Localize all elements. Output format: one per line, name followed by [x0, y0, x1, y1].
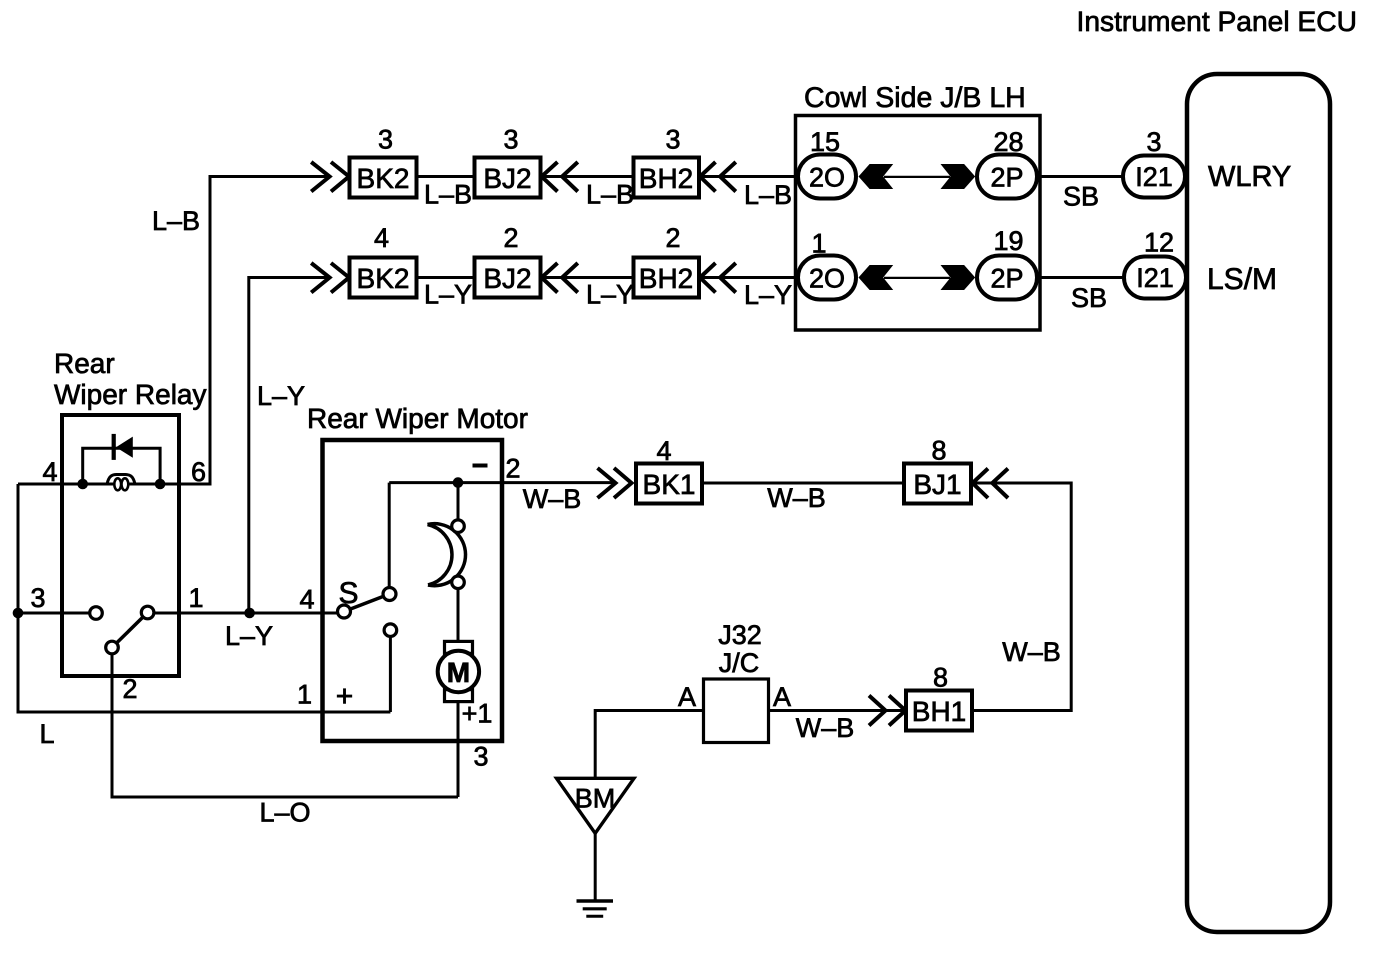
wire relay pin1 to motor pin4: [152, 612, 339, 615]
svg-text:L–Y: L–Y: [257, 381, 305, 411]
wire J32 to BH1: [769, 709, 907, 712]
label L-B: [152, 206, 200, 236]
svg-text:2O: 2O: [809, 264, 845, 294]
pin 2 label above BJ2 row2: [503, 223, 518, 253]
svg-text:2: 2: [665, 223, 680, 253]
svg-text:2O: 2O: [809, 163, 845, 193]
svg-text:BH1: BH1: [912, 696, 966, 727]
pin 12 label above I21 row2: [1144, 228, 1174, 258]
svg-text:8: 8: [933, 663, 948, 693]
wire L-Y riser to row2: [249, 278, 329, 614]
label L-Y: [257, 381, 305, 411]
svg-text:1: 1: [297, 680, 312, 710]
svg-text:I21: I21: [1136, 263, 1174, 293]
junction dot relay coil right: [155, 479, 166, 490]
svg-text:Rear Wiper Motor: Rear Wiper Motor: [307, 403, 528, 434]
pin 3 label above BK2 row1: [378, 125, 393, 155]
svg-text:LS/M: LS/M: [1207, 263, 1277, 296]
pin 2 label motor: [505, 454, 520, 484]
connector BH2 row2: [634, 258, 700, 298]
svg-text:Cowl Side J/B LH: Cowl Side J/B LH: [804, 82, 1026, 114]
connector BJ1: [904, 464, 971, 504]
svg-text:L–B: L–B: [744, 180, 792, 210]
label W-B: [796, 713, 855, 743]
label L-O: [259, 798, 310, 828]
wire BH2 to junction block row1: [699, 175, 798, 178]
terminal 2O row1: [798, 155, 856, 199]
relay switch contact left: [90, 607, 103, 620]
connector BH2 row1: [634, 158, 700, 198]
label Rear Wiper Motor: [307, 403, 528, 434]
connector BK2 row2: [350, 258, 417, 298]
junction dot motor minus: [453, 477, 464, 488]
svg-text:6: 6: [191, 457, 206, 487]
connector BH1: [906, 691, 972, 731]
svg-text:L–Y: L–Y: [586, 280, 634, 310]
arrow chevrons after BJ2 row1: [542, 162, 578, 192]
label L-B: [586, 180, 634, 210]
pin 3 label above I21 row1: [1146, 127, 1161, 157]
svg-text:Instrument Panel ECU: Instrument Panel ECU: [1077, 5, 1357, 37]
svg-text:W–B: W–B: [523, 484, 582, 514]
solid arrow left row2: [859, 265, 894, 290]
svg-text:3: 3: [473, 742, 488, 772]
svg-text:L–Y: L–Y: [225, 621, 273, 651]
motor M armature: [438, 651, 479, 692]
arrow chevrons after BH2 row1: [700, 162, 736, 192]
svg-text:BK2: BK2: [357, 163, 410, 194]
svg-text:4: 4: [299, 585, 314, 615]
cam crescent: [428, 524, 466, 586]
label W-B: [767, 483, 826, 513]
pin 4 label motor: [299, 585, 314, 615]
pin 28 label above 2P row1: [993, 127, 1023, 157]
svg-text:+1: +1: [462, 699, 493, 729]
pin 3 label above BH2 row1: [665, 125, 680, 155]
svg-text:L–Y: L–Y: [424, 280, 472, 310]
net LS/M: [1207, 263, 1277, 296]
svg-text:W–B: W–B: [767, 483, 826, 513]
svg-text:+: +: [336, 680, 354, 713]
pin 3 label above BJ2 row1: [503, 125, 518, 155]
plus label motor: [336, 680, 354, 713]
wire ground stem: [594, 833, 597, 899]
relay coil: [107, 475, 135, 491]
arrow chevrons into BK1: [598, 468, 632, 498]
svg-text:A: A: [773, 682, 791, 712]
wire left rail and L line: [18, 484, 390, 712]
pin 1 label motor: [297, 680, 312, 710]
motor switch contact lower: [384, 624, 397, 637]
pin 2 label above BH2 row2: [665, 223, 680, 253]
connector BJ2 row1: [475, 158, 541, 198]
label L-B: [744, 180, 792, 210]
svg-text:3: 3: [665, 125, 680, 155]
motor M brushes: [445, 641, 473, 701]
wire relay pin4-pin6 line: [18, 483, 212, 486]
label L-Y at node: [225, 621, 273, 651]
pin 4 label above BK2 row2: [374, 223, 389, 253]
solid arrow right row2: [941, 265, 976, 290]
terminal 2P row2: [977, 256, 1037, 300]
label L-Y: [424, 280, 472, 310]
svg-text:2P: 2P: [990, 163, 1023, 193]
svg-text:3: 3: [30, 583, 45, 613]
label Instrument Panel ECU: [1077, 5, 1357, 37]
arrow chevrons into BK2 row1: [311, 162, 349, 192]
svg-text:BH2: BH2: [639, 163, 693, 194]
svg-text:L–B: L–B: [424, 180, 472, 210]
pin A label left of J32: [678, 682, 696, 712]
svg-text:2: 2: [122, 674, 137, 704]
pin 4 label relay: [42, 457, 57, 487]
label J32: [718, 620, 762, 650]
svg-text:W–B: W–B: [796, 713, 855, 743]
wire BK1 to BJ1: [702, 482, 904, 485]
svg-text:3: 3: [503, 125, 518, 155]
label SB: [1071, 283, 1107, 313]
wire motor left vertical to switch: [388, 483, 391, 588]
arrow chevrons into BH1: [869, 696, 906, 726]
motor box: [323, 440, 503, 741]
arrow chevrons after BH2 row2: [700, 263, 736, 293]
cam contact top: [452, 520, 465, 533]
ECU block: [1187, 74, 1330, 932]
wire BH2 to junction block row2: [699, 276, 798, 279]
arrow chevrons after BJ1: [973, 469, 1009, 499]
pin 1 label relay: [188, 583, 203, 613]
wire between arrows row2: [884, 277, 950, 279]
junction connector J32: [704, 679, 769, 743]
label SB: [1063, 182, 1099, 212]
svg-text:SB: SB: [1071, 283, 1107, 313]
svg-text:BM: BM: [575, 784, 616, 814]
arrow chevrons into BK2 row2: [311, 263, 349, 293]
wire diode branch: [83, 448, 160, 484]
wire cam to motor M: [457, 589, 460, 644]
terminal I21 row1: [1123, 156, 1185, 198]
wire BK2 to BJ2 row2: [417, 276, 475, 279]
svg-text:19: 19: [993, 226, 1023, 256]
label L-B: [424, 180, 472, 210]
pin 2 label relay: [122, 674, 137, 704]
arrow chevrons after BJ2 row2: [542, 263, 578, 293]
svg-text:J32: J32: [718, 620, 762, 650]
wire BJ2 to BH2 row1: [541, 175, 634, 178]
wire L-B riser from relay pin 6: [210, 177, 329, 485]
motor switch arm S: [344, 594, 390, 612]
pin 6 label relay: [191, 457, 206, 487]
motor switch contact upper: [383, 588, 396, 601]
junction dot relay coil left: [77, 479, 88, 490]
label Cowl Side J/B LH: [804, 82, 1026, 114]
svg-text:M: M: [447, 657, 470, 688]
svg-text:2P: 2P: [990, 264, 1023, 294]
wire BJ2 to BH2 row2: [541, 276, 634, 279]
pin 4 label above BK1: [656, 436, 671, 466]
junction dot L-Y node: [244, 608, 255, 619]
svg-text:Wiper Relay: Wiper Relay: [54, 379, 206, 410]
svg-text:WLRY: WLRY: [1208, 161, 1291, 193]
svg-text:12: 12: [1144, 228, 1174, 258]
wire BK2 to BJ2 row1: [417, 175, 475, 178]
wire motor plus branch vertical: [389, 634, 392, 712]
svg-text:BK2: BK2: [357, 263, 410, 294]
label L-Y: [744, 280, 792, 310]
svg-text:4: 4: [42, 457, 57, 487]
connector BK1: [636, 464, 702, 504]
motor switch contact pin4: [338, 605, 351, 618]
label L: [39, 719, 54, 749]
wire cam vertical top: [457, 483, 460, 521]
relay box: [62, 415, 179, 676]
terminal 2O row2: [798, 256, 856, 300]
pin A label right of J32: [773, 682, 791, 712]
wire relay pin2 and L-O run: [112, 651, 458, 797]
cam contact bottom: [452, 576, 465, 589]
solid arrow left row1: [859, 164, 894, 189]
svg-text:BJ1: BJ1: [913, 469, 961, 500]
svg-text:4: 4: [374, 223, 389, 253]
connector BJ2 row2: [475, 258, 541, 298]
wire 2P to I21 row2: [1037, 276, 1124, 279]
pin 3 label relay: [30, 583, 45, 613]
pin 15 label above 2O row1: [810, 127, 840, 157]
net WLRY: [1208, 161, 1291, 193]
pin 1 label above 2O row2: [811, 229, 826, 259]
svg-text:BJ2: BJ2: [483, 163, 531, 194]
wire between arrows row1: [884, 176, 950, 178]
svg-text:I21: I21: [1135, 162, 1173, 192]
svg-text:BK1: BK1: [643, 469, 696, 500]
minus label motor: [473, 464, 488, 468]
svg-text:3: 3: [378, 125, 393, 155]
label W-B vertical run: [1002, 637, 1061, 667]
label L-Y: [586, 280, 634, 310]
wire motor minus line to BK1: [389, 481, 616, 484]
svg-text:W–B: W–B: [1002, 637, 1061, 667]
label Rear Wiper Relay: [54, 348, 206, 410]
terminal I21 row2: [1124, 257, 1186, 299]
svg-text:1: 1: [188, 583, 203, 613]
svg-text:BH2: BH2: [639, 263, 693, 294]
svg-text:Rear: Rear: [54, 348, 115, 379]
ground marker BM triangle: [557, 778, 635, 833]
pin 19 label above 2P row2: [993, 226, 1023, 256]
relay switch arm: [112, 613, 148, 648]
svg-text:A: A: [678, 682, 696, 712]
ground symbol: [577, 901, 614, 916]
svg-text:L: L: [39, 719, 54, 749]
junction dot left rail pin3: [13, 608, 24, 619]
wire BM to J32: [595, 711, 703, 779]
wire relay pin3: [18, 612, 91, 615]
connector BK2 row1: [350, 158, 417, 198]
svg-text:L–B: L–B: [586, 180, 634, 210]
label J/C: [719, 648, 760, 678]
relay switch pivot contact: [106, 641, 119, 654]
svg-text:2: 2: [503, 223, 518, 253]
svg-text:BJ2: BJ2: [483, 263, 531, 294]
svg-text:SB: SB: [1063, 182, 1099, 212]
pin 8 label above BH1: [933, 663, 948, 693]
svg-text:2: 2: [505, 454, 520, 484]
wire 2P to I21 row1: [1037, 175, 1123, 178]
svg-text:L–O: L–O: [259, 798, 310, 828]
diode (flyback): [112, 434, 133, 460]
svg-text:L–Y: L–Y: [744, 280, 792, 310]
terminal 2P row1: [977, 155, 1037, 199]
wire BJ1 loop to BH1: [971, 483, 1071, 711]
svg-text:3: 3: [1146, 127, 1161, 157]
relay switch contact right: [141, 606, 154, 619]
label +1 motor: [462, 699, 493, 729]
solid arrow right row1: [941, 164, 976, 189]
svg-text:J/C: J/C: [719, 648, 760, 678]
label S: [339, 577, 359, 610]
junction block Cowl Side J/B LH: [796, 116, 1041, 331]
svg-text:8: 8: [931, 436, 946, 466]
svg-text:L–B: L–B: [152, 206, 200, 236]
pin 3 label motor: [473, 742, 488, 772]
pin 8 label above BJ1: [931, 436, 946, 466]
label W-B: [523, 484, 582, 514]
